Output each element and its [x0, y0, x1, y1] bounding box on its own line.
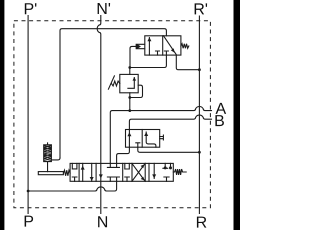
valve V3 S3 T bottom A: [107, 177, 113, 181]
wire V1 bottom port left: [130, 55, 167, 67]
valve V3 S7 stub A dot: [164, 166, 167, 169]
junction dot R upper: [198, 68, 201, 71]
valve V3 right spring: [173, 169, 186, 175]
valve V3 divider 2: [95, 163, 97, 181]
wire P manifold: [28, 181, 117, 191]
wire PRV bypass loop: [130, 85, 143, 97]
label N: [98, 216, 107, 227]
arrowhead N flow down: [99, 174, 103, 178]
enclosure dashed boundary: [14, 21, 211, 208]
arrowhead V3 S5 down: [141, 177, 145, 181]
arrowhead V1 left arrow: [147, 37, 151, 41]
valve V1 body: [145, 36, 181, 55]
arrowhead V3 S7 down: [152, 174, 156, 178]
junction dot A-PRV: [128, 109, 131, 112]
valve V1 blocked port T2: [164, 51, 168, 55]
valve V2 divider: [141, 130, 143, 148]
valve V3 S3 T top B: [114, 163, 120, 167]
valve V3 body: [70, 163, 173, 181]
page edge bar right: [234, 0, 241, 230]
valve V1 left arrow: [148, 38, 150, 56]
valve V2 left arrow line: [128, 130, 130, 148]
label N-prime: [98, 3, 107, 14]
valve V2 plug stub: [160, 135, 164, 140]
arrowhead V3 S2 up: [81, 166, 85, 170]
valve V3 S7 cap: [163, 167, 168, 169]
valve V1 pilot arrow: [136, 44, 141, 48]
junction dot PRV pilot: [128, 66, 131, 69]
valve V2 right flow path: [146, 132, 156, 147]
wire V1 bottom port right: [176, 55, 199, 70]
valve V3 S1 pocket: [72, 163, 77, 169]
label R: [197, 217, 206, 228]
label A: [216, 103, 227, 114]
label P-prime: [25, 3, 34, 14]
wire rod to coil: [47, 162, 49, 172]
wire V2 bottom to main valve: [117, 147, 130, 163]
relief valve PRV body: [120, 74, 138, 92]
page edge bar left: [0, 0, 4, 230]
valve V3 S7 stub B dot: [169, 166, 172, 169]
coil spring top stub: [47, 143, 49, 145]
valve V2 body: [126, 130, 160, 148]
valve V1 blocked port T1: [156, 51, 160, 55]
arrowhead V3 S5 up: [141, 164, 145, 168]
arrowhead V3 S2 down: [90, 177, 94, 181]
arrowhead V1 diagonal: [171, 48, 175, 52]
valve V3 S7 T bottom: [164, 177, 169, 181]
valve V1 divider: [162, 36, 164, 55]
valve V3 S7 stub B: [170, 163, 172, 168]
valve V3 divider 1: [78, 163, 80, 181]
valve V1 diagonal flow: [164, 36, 177, 55]
valve V3 S3 T bottom B: [114, 177, 120, 181]
valve V3 S4 pocket: [125, 163, 130, 169]
wire N-prime manifold: [60, 29, 166, 158]
valve V3 S2 up arrow: [82, 163, 84, 181]
junction dot P-manifold: [27, 190, 30, 193]
relief valve PRV adjust arrow: [108, 76, 114, 89]
valve V3 S5 cross B: [132, 163, 145, 181]
valve V3 S3 T top A: [107, 163, 113, 167]
valve V3 S7 stub A: [164, 163, 166, 168]
label P: [25, 216, 34, 227]
valve V1 pilot box: [136, 44, 144, 48]
valve V3 divider 3: [122, 163, 124, 181]
valve V2 blocked port T: [136, 143, 140, 147]
wire PRV bottom port: [129, 93, 131, 111]
arrowhead V2 left arrow: [127, 132, 131, 136]
wire A line: [110, 107, 211, 164]
relief valve PRV flow arrow: [128, 78, 134, 89]
lever rod: [38, 172, 63, 175]
wire R line: [198, 16, 200, 214]
valve V1 spring: [181, 44, 189, 49]
wire PRV top port: [129, 68, 131, 75]
junction dot PRV drain: [128, 96, 131, 99]
wire B line: [129, 115, 211, 129]
relief valve PRV spring: [111, 81, 119, 86]
valve V3 S4 blocked port: [125, 177, 130, 181]
valve V3 divider 4: [131, 163, 133, 181]
junction dot R lower: [198, 151, 201, 154]
valve V3 left spring: [63, 170, 70, 176]
label R-prime: [195, 3, 204, 14]
valve V3 S5 cross A: [132, 163, 145, 181]
valve V3 divider 6: [148, 163, 150, 181]
wire P line: [27, 16, 29, 214]
coil spring: [44, 145, 52, 162]
label B: [215, 115, 224, 126]
valve V3 divider 5: [144, 163, 146, 181]
wire V1 pilot line: [130, 46, 136, 67]
valve V3 S7 down arrow: [153, 163, 155, 178]
wire V2 tank line to R: [138, 147, 200, 152]
wire N line: [97, 16, 101, 214]
wire coil to manifold elbow: [51, 158, 60, 160]
valve V3 S2 down arrow: [91, 163, 93, 181]
arrowhead V2 right arrow: [144, 132, 148, 136]
arrowhead PRV flow: [133, 77, 137, 81]
valve V3 S1 blocked port: [72, 177, 77, 181]
